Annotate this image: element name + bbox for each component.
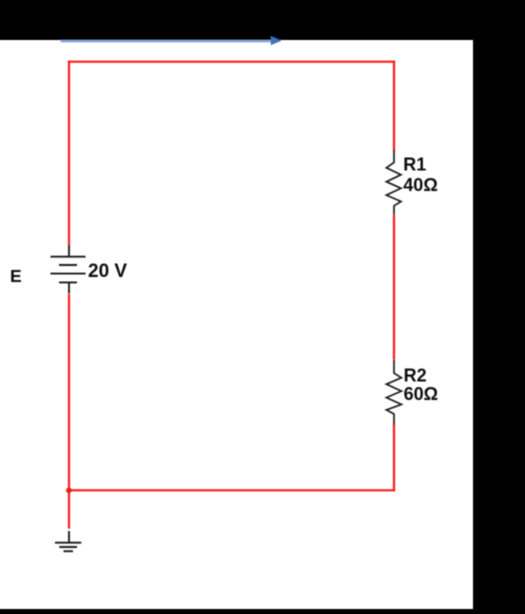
wire top — [69, 61, 394, 63]
svg-text:20 V: 20 V — [88, 261, 127, 282]
svg-text:R1: R1 — [403, 155, 426, 175]
wire bottom — [69, 489, 394, 491]
resistor R2 — [386, 360, 401, 425]
junction node (bottom-left) — [66, 488, 72, 494]
ground — [55, 531, 81, 551]
wire right middle (R1 to R2) — [393, 215, 395, 360]
wire right lower (R2 to bottom corner) — [393, 425, 395, 491]
svg-text:E: E — [10, 266, 22, 286]
battery E — [51, 245, 86, 294]
resistor R1 — [386, 150, 401, 215]
wire left lower (battery to junction and ground stub) — [68, 294, 70, 529]
wire right upper (top corner to R1) — [393, 62, 395, 150]
svg-text:40Ω: 40Ω — [403, 175, 437, 195]
svg-text:60Ω: 60Ω — [404, 384, 438, 404]
wire left upper (top corner to battery) — [68, 62, 70, 245]
svg-text:R2: R2 — [404, 365, 427, 385]
current direction arrow — [61, 36, 282, 45]
